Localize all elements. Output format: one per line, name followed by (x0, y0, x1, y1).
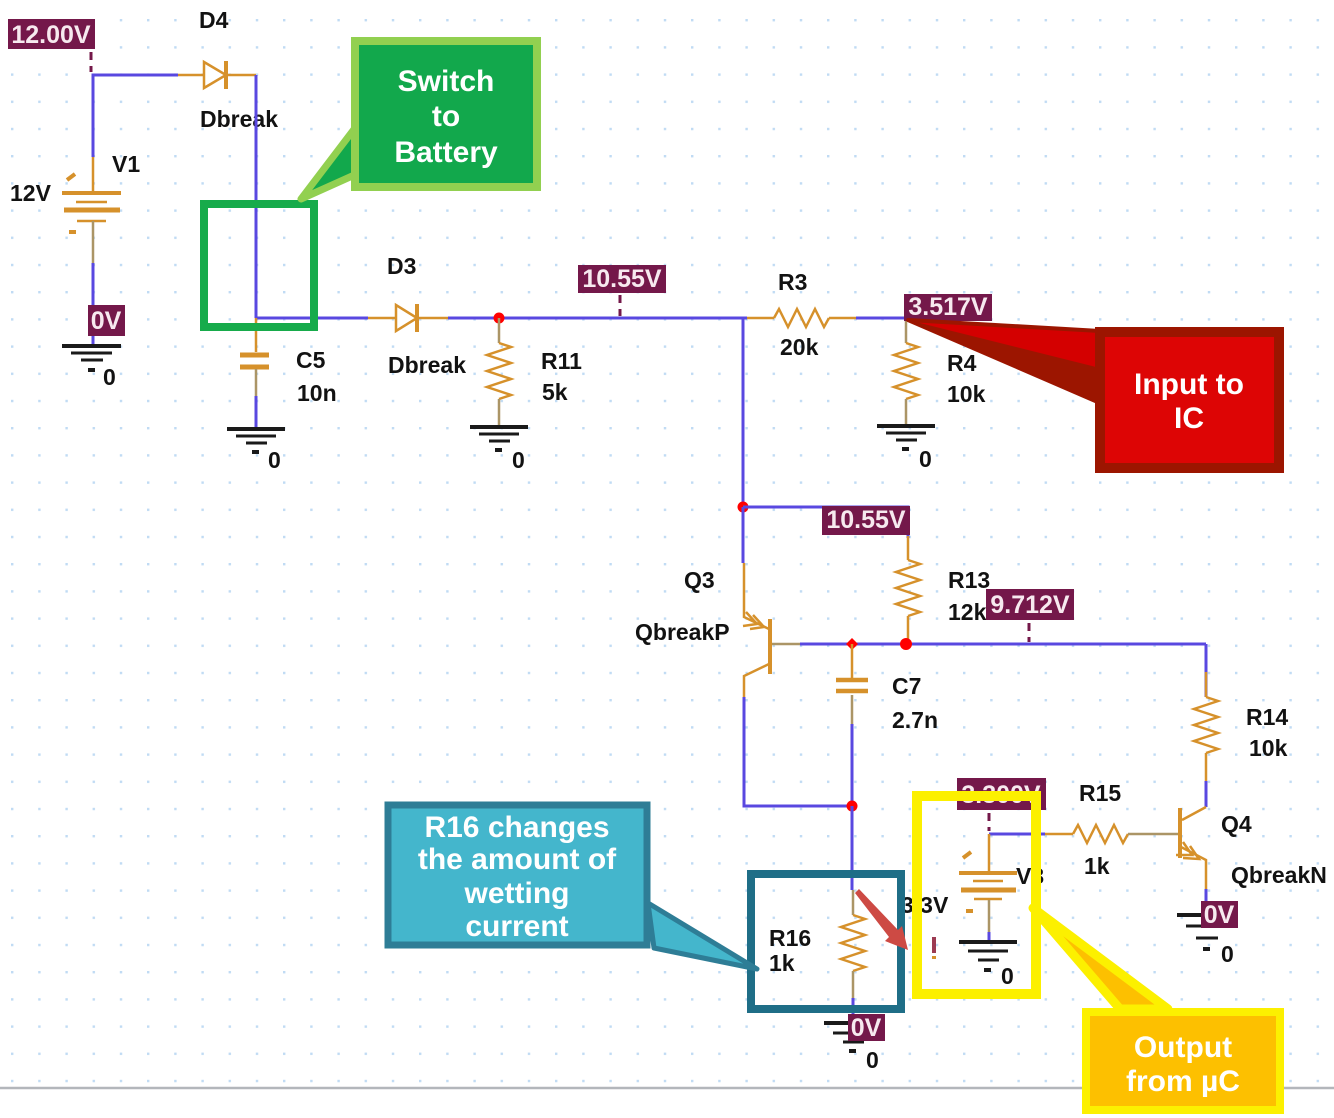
wire R14 to Q4 collector (1205, 781, 1208, 807)
svg-text:0: 0 (1221, 941, 1234, 967)
wire C7 bottom to R16 node (851, 724, 854, 806)
probe label 3.300V (957, 778, 1046, 810)
svg-text:12.00V: 12.00V (11, 21, 91, 49)
svg-text:R4: R4 (947, 350, 977, 376)
svg-text:0: 0 (919, 446, 932, 472)
svg-text:wetting: wetting (464, 877, 570, 910)
transistor Q4 QbreakN (1176, 807, 1206, 889)
label 3.3V (901, 892, 949, 918)
wire C5 bottom to ground (255, 396, 258, 427)
resistor R11 (487, 318, 511, 425)
label Q3 (684, 567, 715, 593)
svg-text:R3: R3 (778, 269, 807, 295)
svg-text:12k: 12k (948, 599, 987, 625)
label R16 (769, 925, 811, 951)
svg-text:D3: D3 (387, 253, 416, 279)
svg-text:Q3: Q3 (684, 567, 715, 593)
probe label 0V (V1 ground) (88, 305, 125, 336)
yellow highlight rectangle (V3 area) (917, 796, 1036, 994)
svg-text:0V: 0V (91, 307, 122, 335)
svg-text:3.3V: 3.3V (901, 892, 949, 918)
wire R16 bottom to ground (852, 998, 855, 1021)
ground 0 (V1) (62, 346, 121, 390)
resistor R15 (1045, 825, 1178, 843)
ground 0 (R4) (877, 426, 935, 472)
battery V3 (959, 834, 1017, 932)
svg-text:10k: 10k (947, 381, 986, 407)
label 1k (R16) (769, 950, 795, 976)
wire R3 to R4 node (856, 317, 906, 320)
wire V1 bottom to ground (92, 263, 95, 344)
wire R16 top lead (851, 806, 854, 890)
label Q4 (1221, 811, 1252, 837)
resistor R14 (1194, 672, 1218, 781)
svg-text:QbreakN: QbreakN (1231, 862, 1327, 888)
svg-text:12V: 12V (10, 180, 52, 206)
svg-text:9.712V: 9.712V (990, 591, 1070, 619)
svg-text:1k: 1k (769, 950, 795, 976)
svg-text:3.517V: 3.517V (908, 293, 988, 321)
svg-text:0V: 0V (851, 1014, 882, 1042)
svg-text:R13: R13 (948, 567, 990, 593)
label 10k (R4) (947, 381, 986, 407)
svg-text:2.7n: 2.7n (892, 707, 938, 733)
label R11 (541, 348, 582, 374)
callout Output from uC (box) (1086, 1012, 1280, 1110)
probe label 12.00V (8, 19, 95, 49)
probe label 10.55V (right) (822, 506, 910, 535)
dashed probe leader under 9.712V (1028, 623, 1031, 642)
junction node (D3/R11) (494, 313, 505, 324)
resistor R16 (841, 890, 865, 998)
svg-text:R15: R15 (1079, 780, 1121, 806)
junction node (Q3 top rail) (738, 502, 749, 513)
resistor R3 (747, 309, 856, 327)
label D3 (387, 253, 416, 279)
wire rail down to R14 (1205, 644, 1208, 697)
svg-text:R11: R11 (541, 348, 582, 374)
label 20k (780, 334, 819, 360)
svg-text:20k: 20k (780, 334, 819, 360)
wire Q4 emitter to ground (1205, 889, 1208, 912)
diode D4 (178, 61, 256, 89)
wire Q3 base rail (to R14 drop) (800, 643, 1206, 646)
wire C5 node to D3 anode (256, 317, 368, 320)
label 12k (948, 599, 987, 625)
label D4 (199, 7, 229, 33)
callout R16 wetting current (tail) (648, 903, 757, 969)
bottom page edge line (0, 1087, 1334, 1090)
callout Switch to Battery (tail) (301, 124, 370, 199)
svg-text:R16: R16 (769, 925, 811, 951)
label C7 (892, 673, 921, 699)
svg-text:0: 0 (268, 447, 281, 473)
label Dbreak (D3) (388, 352, 466, 378)
resistor R4 (894, 321, 918, 424)
dashed probe leader under 10.55V left (619, 295, 622, 316)
wire V3 minus to ground (988, 932, 991, 940)
green highlight rectangle (switch area) (204, 204, 314, 327)
label R14 (1246, 704, 1288, 730)
ground 0 (V3) (959, 942, 1017, 989)
svg-text:Switch: Switch (398, 65, 495, 98)
label V3 (1016, 863, 1044, 889)
label 10n (297, 380, 337, 406)
svg-text:C7: C7 (892, 673, 921, 699)
wire R3 node down to Q3 collector rail (742, 318, 745, 507)
svg-text:5k: 5k (542, 379, 568, 405)
svg-text:1k: 1k (1084, 853, 1110, 879)
dashed probe leader under 12.00V (90, 52, 93, 72)
svg-text:Input to: Input to (1134, 368, 1244, 401)
resistor R13 (896, 536, 920, 644)
diode D3 (368, 304, 448, 332)
label C5 (296, 347, 326, 373)
label Dbreak (D4) (200, 106, 278, 132)
junction node (R16 top) (847, 801, 858, 812)
label R4 (947, 350, 977, 376)
svg-text:10.55V: 10.55V (582, 265, 662, 293)
wire Q3 rail to R13 top (743, 507, 908, 538)
transistor Q3 QbreakP (743, 563, 800, 697)
svg-text:V1: V1 (112, 151, 140, 177)
capacitor C5 (240, 318, 269, 396)
svg-text:QbreakP: QbreakP (635, 619, 730, 645)
dashed sliver inside yellow box (932, 937, 936, 959)
callout Input to IC (tail) (908, 320, 1100, 403)
label 1k (R15) (1084, 853, 1110, 879)
probe label 9.712V (986, 589, 1074, 620)
svg-text:current: current (465, 910, 568, 943)
svg-text:the amount of: the amount of (418, 843, 617, 876)
svg-text:0V: 0V (1204, 901, 1235, 929)
probe label 0V (Q4 emitter) (1201, 901, 1238, 929)
svg-text:from µC: from µC (1126, 1065, 1240, 1098)
dashed probe leader under 3.300V (988, 813, 991, 831)
callout Input to IC (box) (1100, 332, 1279, 468)
probe label 3.517V (904, 293, 992, 321)
label 5k (542, 379, 568, 405)
wire Q3 emitter down and across to R16 node (744, 697, 852, 806)
label R13 (948, 567, 990, 593)
callout Output from uC (tail) (1033, 908, 1168, 1009)
ground 0 (R16) (824, 1023, 882, 1073)
ground 0 (R11) (470, 427, 528, 473)
wire V1 top to D4 anode (93, 75, 178, 157)
svg-text:IC: IC (1174, 402, 1204, 435)
label V1 (112, 151, 140, 177)
battery V1 (62, 157, 121, 263)
wire V3 plus to R15 (989, 833, 1045, 836)
wire D3 cathode to R3 (448, 317, 747, 320)
capacitor C7 (836, 644, 868, 724)
label R3 (778, 269, 807, 295)
junction node (C7 top) (846, 638, 858, 650)
svg-text:Q4: Q4 (1221, 811, 1252, 837)
svg-text:R14: R14 (1246, 704, 1288, 730)
svg-text:0: 0 (1001, 963, 1014, 989)
svg-text:Battery: Battery (394, 136, 498, 169)
svg-text:Dbreak: Dbreak (388, 352, 466, 378)
red arrow pointing at R16 (855, 889, 908, 950)
label QbreakP (635, 619, 730, 645)
label 12V (10, 180, 52, 206)
svg-text:10k: 10k (1249, 735, 1288, 761)
junction node (R13 bottom) (900, 638, 912, 650)
svg-text:10.55V: 10.55V (826, 506, 906, 534)
teal highlight rectangle (R16 area) (751, 874, 901, 1009)
ground 0 (C5) (227, 429, 285, 473)
label 10k (R14) (1249, 735, 1288, 761)
svg-text:R16 changes: R16 changes (424, 811, 609, 844)
svg-text:10n: 10n (297, 380, 337, 406)
svg-text:C5: C5 (296, 347, 326, 373)
svg-text:Dbreak: Dbreak (200, 106, 278, 132)
svg-text:to: to (432, 100, 460, 133)
label QbreakN (1231, 862, 1327, 888)
ground 0 (Q4) (1177, 915, 1236, 967)
probe label 10.55V (left) (578, 265, 666, 293)
wire D4 cathode down to C5 node (255, 75, 258, 318)
svg-text:0: 0 (866, 1047, 879, 1073)
probe label 0V (R16 ground) (848, 1014, 885, 1042)
label 2.7n (892, 707, 938, 733)
svg-text:D4: D4 (199, 7, 229, 33)
svg-text:0: 0 (103, 364, 116, 390)
callout R16 wetting current (box) (388, 805, 647, 945)
svg-text:Output: Output (1134, 1031, 1232, 1064)
label R15 (1079, 780, 1121, 806)
callout Switch to Battery (box) (355, 41, 537, 187)
wire Q3 collector (742, 507, 745, 563)
svg-text:0: 0 (512, 447, 525, 473)
